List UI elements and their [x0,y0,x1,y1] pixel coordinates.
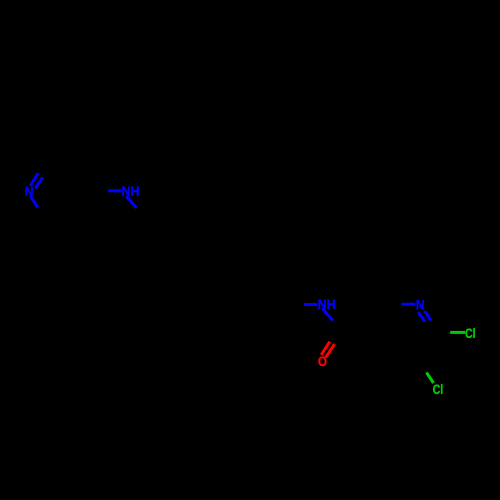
svg-text:Cl: Cl [433,382,444,398]
svg-text:Cl: Cl [465,325,476,341]
svg-text:N: N [25,183,34,199]
svg-text:O: O [318,353,327,369]
svg-text:N: N [416,296,425,312]
svg-text:NH: NH [122,183,140,199]
svg-text:NH: NH [318,296,336,312]
